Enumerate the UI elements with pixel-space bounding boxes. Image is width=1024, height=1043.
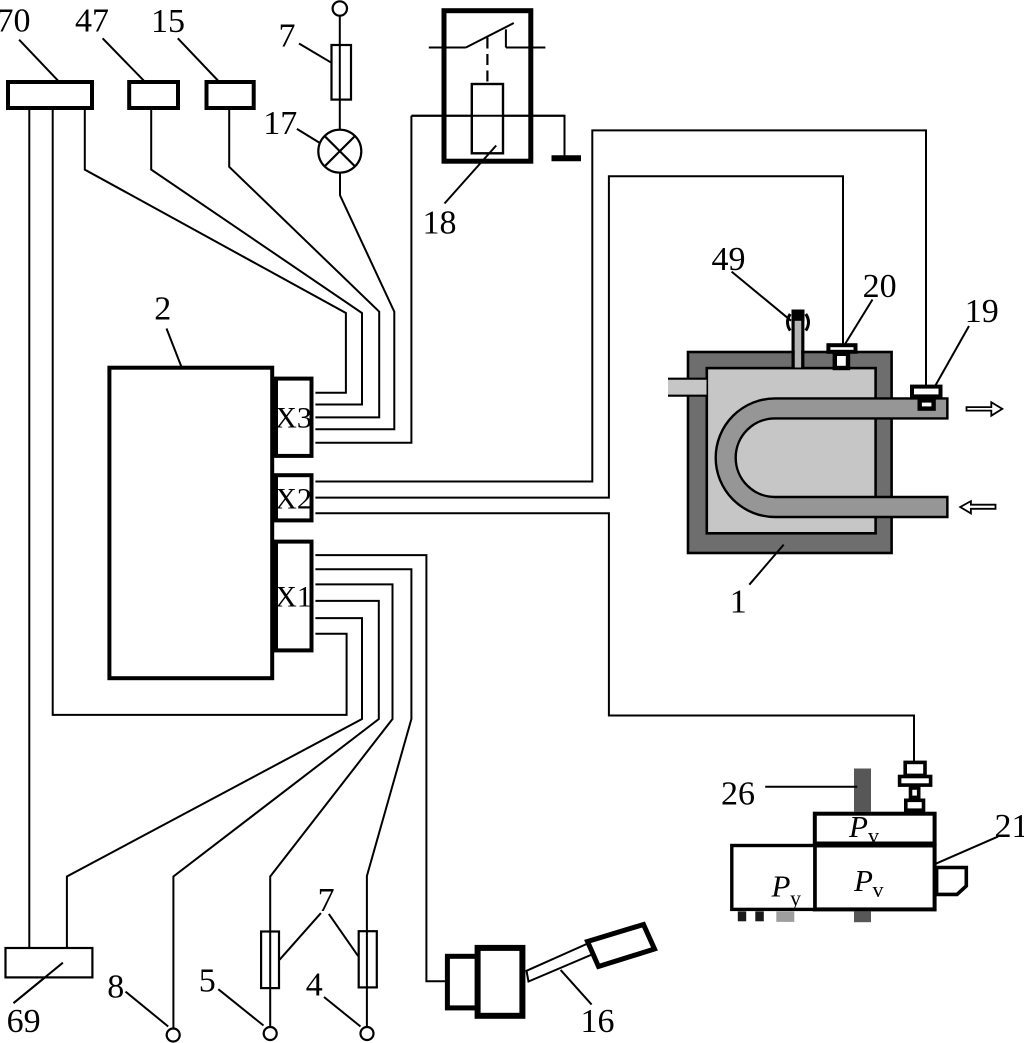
svg-text:v: v <box>873 877 884 902</box>
svg-text:X3: X3 <box>275 402 312 435</box>
svg-text:17: 17 <box>263 105 297 142</box>
svg-text:4: 4 <box>306 967 323 1004</box>
svg-text:18: 18 <box>423 205 457 242</box>
svg-text:P: P <box>771 869 791 904</box>
svg-text:19: 19 <box>965 293 999 330</box>
svg-text:69: 69 <box>7 1003 41 1040</box>
svg-text:15: 15 <box>151 3 185 40</box>
svg-text:2: 2 <box>154 291 171 328</box>
svg-text:16: 16 <box>581 1003 615 1040</box>
svg-text:20: 20 <box>863 268 897 305</box>
svg-text:1: 1 <box>730 584 747 621</box>
svg-text:21: 21 <box>995 808 1024 845</box>
svg-text:8: 8 <box>107 969 124 1006</box>
svg-text:7: 7 <box>279 18 296 55</box>
svg-text:P: P <box>853 863 873 898</box>
svg-text:47: 47 <box>75 3 109 40</box>
svg-text:26: 26 <box>721 776 755 813</box>
svg-text:v: v <box>868 823 879 848</box>
svg-text:7: 7 <box>318 882 335 919</box>
svg-text:P: P <box>848 809 868 844</box>
svg-text:X2: X2 <box>275 483 312 516</box>
svg-text:5: 5 <box>199 963 216 1000</box>
svg-text:X1: X1 <box>275 581 312 614</box>
svg-text:49: 49 <box>712 241 746 278</box>
svg-text:70: 70 <box>0 3 31 40</box>
svg-text:y: y <box>790 886 801 911</box>
